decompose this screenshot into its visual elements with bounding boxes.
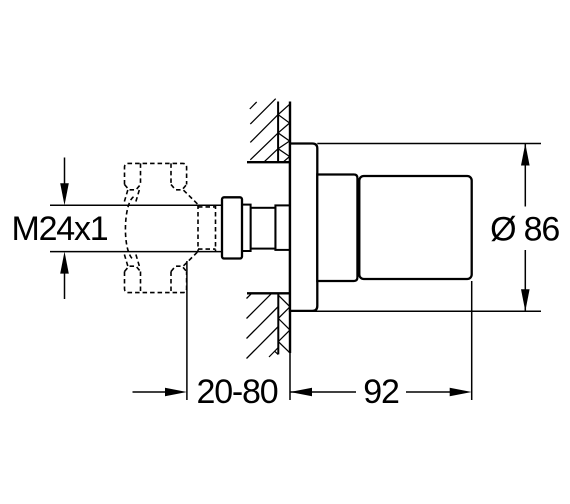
valve body dashed: top transition lines	[124, 190, 198, 204]
dimension line 92 with left arrow (pointing left)	[290, 388, 356, 397]
dimension arrow M24x1 bottom (pointing up)	[60, 252, 69, 299]
cartridge flange	[222, 197, 242, 258]
cartridge ring	[242, 205, 251, 251]
dimension line dia 86	[524, 144, 526, 312]
dimension arrow dia86 top (pointing up)	[521, 144, 530, 166]
handle knob	[359, 176, 471, 279]
dimension arrow dia86 bottom (pointing down)	[521, 289, 530, 311]
valve body dashed: top union bar	[125, 163, 187, 184]
extension line rosette top (for dia 86)	[317, 143, 541, 145]
wall upper: opening top edge	[247, 161, 291, 163]
svg-text:92: 92	[363, 373, 399, 411]
dimension line 92 right part with arrow (pointing right)	[406, 388, 472, 397]
valve body dashed: top-right nut chamfer	[171, 185, 187, 190]
wall upper: inner boundary line	[277, 102, 279, 163]
svg-text:20-80: 20-80	[197, 373, 278, 411]
valve body dashed: left dome profile	[125, 197, 133, 260]
extension line below wall (shared by 20-80 and 92)	[289, 353, 291, 400]
extension line rosette bottom (for dia 86)	[292, 310, 542, 312]
extension line valve mounting face (20-80)	[186, 261, 188, 400]
valve body dashed: spindle union nut	[198, 205, 216, 252]
valve body dashed: bottom union bar	[125, 272, 187, 293]
wall lower: opening bottom edge	[247, 292, 291, 294]
wall lower: hatching	[247, 293, 279, 358]
valve body dashed: bottom-right nut chamfer	[171, 266, 187, 271]
extension line knob front (92)	[471, 281, 473, 400]
svg-text:M24x1: M24x1	[11, 210, 107, 248]
wall lower: boundary end mark	[275, 351, 279, 354]
escutcheon plate (rosette)	[290, 144, 317, 311]
handle base cylinder	[317, 175, 357, 282]
valve body dashed: top-left nut chamfer	[125, 185, 141, 190]
wall finished surface line	[289, 102, 291, 354]
extension line bottom (M24x1 thread bottom edge)	[50, 251, 222, 253]
wall lower: finish layer zigzag	[278, 295, 290, 353]
dimension line 20-80 left part with arrow (pointing right)	[133, 388, 187, 397]
cartridge mid cylinder	[251, 208, 276, 249]
wall upper: hatching	[250, 99, 278, 163]
wall upper: finish layer zigzag	[278, 104, 290, 162]
svg-text:Ø 86: Ø 86	[490, 210, 559, 248]
dimension arrow M24x1 top (pointing down)	[60, 158, 69, 206]
wall lower: inner boundary line	[277, 293, 279, 354]
cartridge sleeve (enters wall)	[275, 205, 290, 250]
extension line top (M24x1 thread top edge)	[50, 204, 222, 206]
valve body dashed: bottom-left nut chamfer	[125, 266, 141, 271]
valve body dashed: bottom transition lines	[124, 252, 198, 266]
